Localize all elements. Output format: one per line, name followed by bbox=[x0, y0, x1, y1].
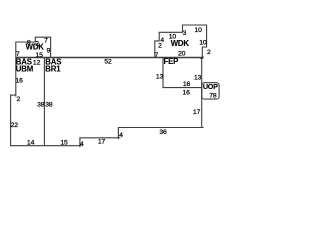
svg-text:16: 16 bbox=[183, 81, 191, 88]
svg-text:13: 13 bbox=[194, 74, 202, 81]
svg-text:20: 20 bbox=[178, 51, 186, 58]
svg-text:12: 12 bbox=[33, 59, 41, 66]
svg-text:10: 10 bbox=[169, 34, 177, 41]
svg-text:52: 52 bbox=[104, 59, 112, 66]
svg-text:8: 8 bbox=[27, 39, 31, 46]
svg-text:7: 7 bbox=[155, 52, 159, 59]
svg-text:2: 2 bbox=[17, 96, 21, 103]
svg-text:15: 15 bbox=[60, 139, 68, 146]
svg-text:10: 10 bbox=[199, 39, 207, 46]
svg-text:2: 2 bbox=[158, 43, 162, 50]
svg-text:15: 15 bbox=[36, 52, 44, 59]
svg-text:2: 2 bbox=[35, 40, 39, 47]
svg-text:UOP: UOP bbox=[203, 82, 218, 91]
svg-text:2: 2 bbox=[207, 49, 211, 56]
svg-text:16: 16 bbox=[183, 90, 191, 97]
svg-text:9: 9 bbox=[47, 48, 51, 55]
svg-text:7: 7 bbox=[16, 51, 20, 58]
svg-text:36: 36 bbox=[159, 129, 167, 136]
svg-text:4: 4 bbox=[119, 132, 123, 139]
svg-text:3: 3 bbox=[183, 30, 187, 37]
svg-text:7: 7 bbox=[44, 38, 48, 45]
svg-text:13: 13 bbox=[156, 73, 164, 80]
svg-text:FEP: FEP bbox=[164, 57, 179, 66]
svg-text:16: 16 bbox=[16, 77, 24, 84]
svg-text:4: 4 bbox=[80, 141, 84, 148]
svg-text:17: 17 bbox=[193, 109, 201, 116]
svg-text:78: 78 bbox=[209, 92, 217, 99]
svg-text:22: 22 bbox=[11, 122, 19, 129]
svg-text:UBM: UBM bbox=[16, 64, 33, 73]
svg-text:14: 14 bbox=[27, 140, 35, 147]
svg-text:10: 10 bbox=[195, 27, 203, 34]
svg-text:38: 38 bbox=[37, 102, 45, 109]
svg-text:17: 17 bbox=[98, 139, 106, 146]
svg-text:38: 38 bbox=[45, 102, 53, 109]
svg-text:BR1: BR1 bbox=[45, 64, 61, 73]
